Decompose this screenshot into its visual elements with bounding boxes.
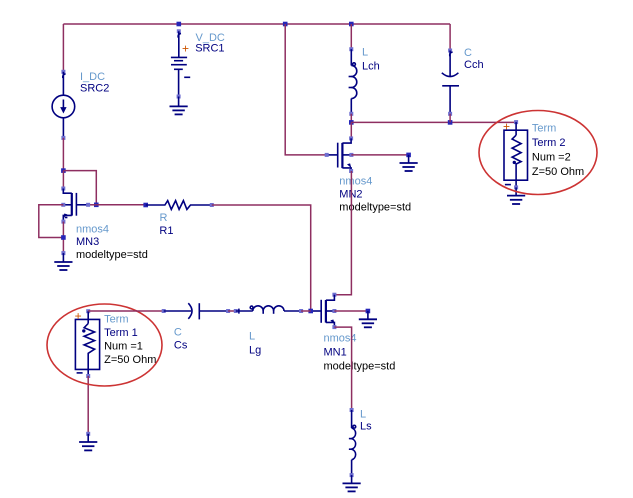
voltage source V_DC SRC1 <box>171 29 190 98</box>
junction Cch bottom node <box>448 120 453 125</box>
junction MN2 gate wire at rail <box>283 22 288 27</box>
wire Cch bottom <box>449 114 451 123</box>
svg-text:R1: R1 <box>159 225 173 237</box>
port Term1 <box>75 309 99 378</box>
current source U? I_DC SRC2 <box>52 70 75 140</box>
svg-text:Term: Term <box>104 313 128 325</box>
svg-text:Term 1: Term 1 <box>104 327 138 339</box>
ground below Term2 <box>507 187 525 204</box>
wire MN2 drain <box>350 122 352 138</box>
svg-text:L: L <box>360 409 366 421</box>
junction MN3 gate node <box>94 203 99 208</box>
junction Lch at rail <box>349 22 354 27</box>
svg-text:modeltype=std: modeltype=std <box>339 202 411 214</box>
svg-text:Z=50 Ohm: Z=50 Ohm <box>104 354 156 366</box>
ground below Ls <box>343 475 361 491</box>
svg-text:R: R <box>160 212 168 224</box>
wire Lg to MN1 gate <box>301 310 311 312</box>
wire MN3 bulk loop to source <box>39 205 64 238</box>
inductor Lch <box>349 24 357 116</box>
wire rail corner down to Cch top <box>449 24 451 51</box>
wire drain rail to Term2 <box>351 121 516 123</box>
transistor Q MN2 (nmos4 cascode) <box>325 136 354 173</box>
annotation ellipse around Term1 <box>47 304 162 386</box>
resistor R1 <box>143 201 213 210</box>
svg-text:C: C <box>174 327 182 339</box>
svg-text:+: + <box>503 120 510 134</box>
inductor Lg <box>234 306 303 314</box>
svg-text:Cch: Cch <box>464 59 484 71</box>
wire node A to MN3 gate node <box>63 171 96 205</box>
inductor Ls <box>349 408 356 477</box>
wire Lch bottom <box>350 114 352 123</box>
capacitor Cs <box>162 303 230 319</box>
svg-text:nmos4: nmos4 <box>76 223 109 235</box>
wire I_DC to node A <box>62 138 64 171</box>
svg-text:I_DC: I_DC <box>80 71 105 83</box>
wire MN2 bulk to ground <box>351 154 408 156</box>
svg-text:modeltype=std: modeltype=std <box>76 249 148 261</box>
svg-text:MN1: MN1 <box>324 347 347 359</box>
ground below Term1 <box>79 434 97 451</box>
svg-text:L: L <box>362 47 368 59</box>
svg-text:SRC1: SRC1 <box>195 43 224 55</box>
svg-text:modeltype=std: modeltype=std <box>324 360 396 372</box>
junction MN3 source/bulk <box>61 235 66 240</box>
pin MN3 ground <box>61 251 65 255</box>
wire MN1 source to Ls <box>334 327 351 410</box>
wire top rail VDD <box>63 23 450 25</box>
wire MN3 source down <box>62 222 64 254</box>
junction MN1 gate node <box>308 309 313 314</box>
wire MN3 gate pin to node <box>88 204 96 206</box>
svg-text:Lch: Lch <box>362 61 380 73</box>
wire gate node to R1 <box>96 204 145 206</box>
svg-text:Num =1: Num =1 <box>104 341 143 353</box>
wire MN1 bulk to ground <box>334 310 368 312</box>
svg-text:C: C <box>464 47 472 59</box>
ground at MN1 bulk <box>359 311 377 327</box>
wire node A to MN3 drain <box>62 171 64 189</box>
port Term2 <box>504 120 528 189</box>
wire MN2 source to MN1 drain <box>334 171 351 295</box>
wire MN2 gate to VDD <box>285 24 327 155</box>
svg-text:+: + <box>182 42 189 56</box>
svg-text:Cs: Cs <box>174 339 188 351</box>
junction Lch bottom node <box>349 120 354 125</box>
svg-text:Term 2: Term 2 <box>532 137 566 149</box>
pin ground below Term1 <box>86 432 90 436</box>
svg-text:MN3: MN3 <box>76 236 99 248</box>
junction node A (I_DC / MN3 drain) <box>61 168 66 173</box>
svg-text:Ls: Ls <box>360 420 372 432</box>
ground below V_DC <box>170 97 188 115</box>
wire Term1 to ground <box>87 376 89 434</box>
transistor Q MN1 (nmos4 input) <box>311 293 337 329</box>
annotation ellipse around Term2 <box>479 111 597 195</box>
svg-text:Num =2: Num =2 <box>532 152 571 164</box>
wire Term1 to Cs <box>88 310 164 312</box>
ground at MN2 bulk <box>400 155 418 171</box>
svg-text:Term: Term <box>532 122 556 134</box>
capacitor Cch <box>442 49 459 116</box>
svg-text:SRC2: SRC2 <box>80 83 109 95</box>
svg-text:+: + <box>75 309 82 323</box>
svg-text:L: L <box>249 331 255 343</box>
transistor Q MN3 (mirrored nmos4, diode-connected) <box>61 187 90 224</box>
ground below MN3 <box>54 253 72 270</box>
svg-text:nmos4: nmos4 <box>339 175 372 187</box>
wire Cs to Lg <box>228 310 236 312</box>
junction MN1 bulk ground node <box>366 309 371 314</box>
junction V_DC at rail <box>177 22 182 27</box>
svg-text:Z=50 Ohm: Z=50 Ohm <box>532 166 584 178</box>
svg-text:Lg: Lg <box>249 345 261 357</box>
wire R1 to MN1 gate node <box>212 205 311 311</box>
junction MN2 bulk ground node <box>406 153 411 158</box>
wire top-left drop to I_DC <box>62 24 64 72</box>
